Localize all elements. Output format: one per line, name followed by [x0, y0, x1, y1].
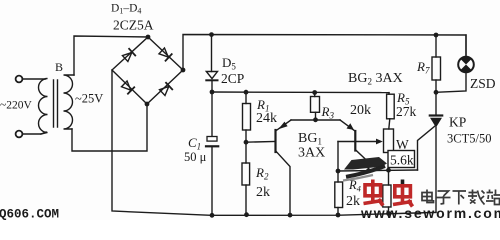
diode D3 lower-left	[121, 81, 134, 94]
junction bridge right	[181, 68, 186, 73]
wire bottom rail	[112, 70, 436, 215]
junction C1 bottom	[210, 213, 215, 218]
resistor R1	[245, 92, 247, 104]
watermark text dianzi xiazaizhan	[422, 190, 500, 205]
resistor R5	[388, 93, 390, 95]
bridge rectifier diamond	[112, 37, 183, 104]
resistor R4	[337, 171, 339, 182]
svg-text:B: B	[55, 60, 63, 74]
svg-text:27k: 27k	[396, 104, 417, 119]
junction R6 bottom	[386, 211, 391, 216]
resistor R3	[314, 93, 316, 97]
label 5.6k box	[388, 151, 415, 168]
junction bridge bottom	[145, 102, 150, 107]
resistor R2	[242, 163, 250, 185]
wire secondary top to AC node	[74, 36, 148, 75]
junction R1 top	[244, 90, 249, 95]
diode D1 upper-left	[122, 49, 135, 62]
svg-text:~220V: ~220V	[0, 100, 32, 112]
resistor R7	[435, 35, 437, 57]
watermark bug left	[364, 180, 384, 206]
junction bridge top	[146, 35, 151, 40]
svg-text:KP: KP	[449, 115, 466, 130]
transistor BG2 right: emitter arrow	[347, 123, 355, 130]
junction BG1 base node	[244, 140, 249, 145]
junction R3 top	[312, 90, 317, 95]
transistor BG2 right: emitter	[340, 120, 355, 131]
wire emitter rail	[291, 119, 340, 121]
wire mid rail	[212, 91, 389, 94]
junction D5 bottom	[210, 90, 215, 95]
wire R2 bottom lead	[245, 185, 247, 215]
svg-text:ZSD: ZSD	[470, 76, 496, 91]
junction R4 bottom	[336, 213, 341, 218]
svg-text:www.seworm.com: www.seworm.com	[360, 205, 500, 220]
svg-text:24k: 24k	[256, 111, 277, 126]
capacitor C1 positive plate	[207, 137, 217, 142]
svg-text:~25V: ~25V	[75, 92, 103, 106]
junction D5 top	[209, 32, 214, 37]
svg-text:20k: 20k	[350, 103, 371, 118]
wire secondary bottom to AC node	[72, 104, 147, 151]
svg-text:50 μ: 50 μ	[184, 150, 207, 164]
wire base node down	[337, 142, 339, 172]
lamp ZSD top lead	[465, 35, 467, 57]
lamp ZSD	[458, 57, 474, 73]
svg-text:5.6k: 5.6k	[390, 153, 414, 168]
diode D5	[206, 72, 217, 79]
watermark bug right	[393, 180, 413, 207]
svg-text:D1–D4: D1–D4	[111, 3, 141, 16]
svg-text:W: W	[396, 137, 409, 152]
svg-text:2k: 2k	[346, 194, 360, 209]
thyristor KP	[430, 114, 442, 116]
thyristor KP anode lead	[435, 92, 437, 115]
lamp ZSD bottom lead	[436, 72, 466, 92]
svg-text:2k: 2k	[256, 185, 270, 200]
junction R4 top	[336, 169, 341, 174]
thyristor KP cathode lead	[435, 128, 437, 213]
diode D2 upper-right	[159, 48, 172, 61]
transformer B secondary winding	[64, 75, 75, 129]
potentiometer W body	[384, 129, 394, 153]
junction R2 bottom	[244, 212, 249, 217]
transistor BG1 left: emitter	[277, 120, 292, 130]
transformer B primary winding	[39, 79, 48, 135]
wire top input lead	[23, 78, 45, 80]
thyristor KP gate lead	[418, 126, 436, 170]
svg-text:2CZ5A: 2CZ5A	[113, 18, 154, 33]
svg-text:Q606.COM: Q606.COM	[0, 208, 59, 221]
junction BG2 collector	[366, 168, 371, 173]
wire BG1 base lead	[246, 141, 275, 144]
transistor BG2 right: base bar	[354, 131, 356, 151]
transistor BG1 left: base bar	[274, 130, 276, 152]
transistor BG1 left: emitter arrow	[278, 122, 287, 130]
junction R7 top	[434, 33, 439, 38]
capacitor C1 negative plate	[206, 145, 218, 147]
transformer core	[54, 80, 58, 127]
resistor R6	[383, 185, 391, 207]
terminal bottom input	[16, 131, 23, 138]
wire C1 top lead	[211, 92, 213, 136]
wire R1 to R2	[245, 130, 247, 163]
wire bottom input lead	[23, 132, 46, 134]
wire BG2 base lead	[338, 141, 355, 143]
svg-text:3AX: 3AX	[298, 146, 325, 161]
wire W bottom lead	[388, 153, 390, 186]
svg-text:BG2 3AX: BG2 3AX	[348, 71, 403, 87]
wire D5 cathode lead	[211, 80, 213, 92]
watermark swoosh logo	[343, 157, 387, 181]
wire gate net	[338, 170, 418, 171]
transistor BG1 left: collector	[277, 152, 291, 215]
potentiometer W wiper arrow	[356, 141, 378, 143]
wire R5 to W	[389, 119, 390, 129]
terminal top input	[16, 76, 23, 83]
wire D5 anode lead	[211, 35, 213, 72]
junction R3 bottom	[313, 117, 318, 122]
wire DC plus rail	[183, 35, 466, 71]
junction R7 bottom	[434, 90, 439, 95]
svg-text:2CP: 2CP	[221, 71, 244, 86]
diode D4 lower-right	[159, 83, 172, 96]
junction BG1 collector bottom	[288, 213, 293, 218]
transistor BG2 right: collector	[356, 150, 369, 170]
svg-text:3CT5/50: 3CT5/50	[447, 132, 491, 146]
junction W bottom gate	[386, 168, 391, 173]
wire C1 bottom lead	[211, 146, 213, 215]
